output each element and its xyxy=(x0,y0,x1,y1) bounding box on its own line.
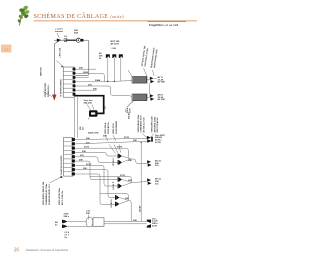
pointer below heater 2 xyxy=(128,101,134,107)
pointer lines to long wires xyxy=(105,135,116,141)
wire strip pin7 to hp2 plug b xyxy=(75,165,118,186)
svg-text:36: 36 xyxy=(14,248,20,254)
pointer to junction xyxy=(57,33,59,38)
connector pair 1 xyxy=(150,77,157,84)
curved pointer from heater 2 xyxy=(125,102,134,113)
bottom left side labels xyxy=(55,221,58,227)
svg-text:B. INTERCONNEX.: B. INTERCONNEX. xyxy=(61,78,63,96)
svg-text:208A: 208A xyxy=(95,79,101,82)
svg-text:27-28: 27-28 xyxy=(155,142,161,144)
wire feed horizontal xyxy=(54,39,70,41)
svg-text:FUSIBLES H.: FUSIBLES H. xyxy=(48,84,50,97)
wire fuse to pin row xyxy=(76,40,89,75)
svg-text:AR G 2178 27a: AR G 2178 27a xyxy=(61,190,64,205)
svg-text:AV 208: AV 208 xyxy=(158,98,166,101)
pin wire 3 xyxy=(76,77,89,79)
bottom wire top xyxy=(68,221,147,223)
left page tab xyxy=(1,45,12,53)
thick bus wire xyxy=(75,96,104,114)
svg-text:AV 2178: AV 2178 xyxy=(111,43,120,46)
svg-text:FEUX AR 2a: FEUX AR 2a xyxy=(107,122,110,134)
wire hp2 node feed xyxy=(90,177,131,183)
bottom right arrows xyxy=(147,220,151,228)
svg-text:2178: 2178 xyxy=(124,137,130,139)
svg-text:contact: contact xyxy=(55,30,63,33)
strip pins xyxy=(72,138,75,175)
svg-text:MAR 208: MAR 208 xyxy=(40,67,43,76)
bottom left plug 2 xyxy=(62,225,68,228)
long wire 2 to connector xyxy=(75,141,147,144)
ECU connector arrow pointer xyxy=(57,61,64,67)
fuse left label xyxy=(64,36,68,43)
svg-text:VERS 2178: VERS 2178 xyxy=(113,123,115,134)
top plug 2 xyxy=(112,54,116,81)
svg-text:VERS AMPLI RADIO 208: VERS AMPLI RADIO 208 xyxy=(42,181,45,205)
bottom right labels xyxy=(152,218,158,227)
svg-text:PLANCHE BORD 27-2: PLANCHE BORD 27-2 xyxy=(48,183,51,205)
vertical wires ECU to strip xyxy=(74,97,77,137)
junction dots xyxy=(107,81,115,83)
svg-text:208 a: 208 a xyxy=(127,107,129,113)
top connector left labels xyxy=(99,52,103,60)
svg-text:SCHÉMAS DE CÂBLAGE (suite): SCHÉMAS DE CÂBLAGE (suite) xyxy=(34,12,125,20)
long wire 1 to connector xyxy=(75,138,147,139)
wire strip pin5 to hp1 plug b xyxy=(75,157,118,163)
wire down to red arrow xyxy=(54,41,59,95)
pin wire 6 xyxy=(76,89,97,91)
svg-text:2208 2178: 2208 2178 xyxy=(88,133,99,135)
svg-text:HP AR G: HP AR G xyxy=(110,199,113,208)
main vertical wire right xyxy=(140,143,142,222)
relay K (black component) xyxy=(88,110,98,119)
svg-text:30A: 30A xyxy=(74,32,78,35)
svg-text:COMMANDE 2178: COMMANDE 2178 xyxy=(140,115,143,133)
wire strip pin9 to hp3 plug b xyxy=(75,174,115,204)
bottom left labels below xyxy=(65,232,70,239)
svg-text:COMMANDE AV 2178a: COMMANDE AV 2178a xyxy=(45,183,48,205)
svg-text:PLAFONNIER: PLAFONNIER xyxy=(115,120,118,134)
slanted label motor 1 xyxy=(142,45,150,76)
connector pair 2 xyxy=(150,94,154,101)
relay labels xyxy=(84,99,94,105)
heater resistor 2 (hatched) xyxy=(132,94,150,101)
svg-text:VERS AMPLI 208: VERS AMPLI 208 xyxy=(151,116,154,133)
svg-text:2178: 2178 xyxy=(84,147,90,149)
strip connector box xyxy=(64,138,74,177)
relay pointer lines xyxy=(87,105,94,110)
ECU rotated label xyxy=(61,78,63,96)
connector hp1 xyxy=(147,160,151,167)
wire hp3 node feed xyxy=(100,194,128,201)
svg-text:26: 26 xyxy=(4,47,9,52)
svg-text:VERS 208 A: VERS 208 A xyxy=(104,122,107,134)
svg-text:2208: 2208 xyxy=(83,72,89,74)
pin wire 4 to motor 1 xyxy=(76,80,132,82)
red arrowhead xyxy=(52,95,56,101)
pointer into heater 1 xyxy=(128,70,132,76)
strip connector pointer xyxy=(50,176,64,184)
svg-text:ANTENNE 2178a: ANTENNE 2178a xyxy=(153,116,156,133)
slanted labels above double connector xyxy=(137,114,147,137)
heater resistor 1 (hatched) xyxy=(132,77,150,84)
slanted label motor 2 xyxy=(150,47,159,76)
speaker plugs 3 xyxy=(115,195,119,206)
pin wire 2 xyxy=(76,73,105,81)
double connector mid-right xyxy=(147,136,153,143)
pin wire 5 xyxy=(76,86,132,97)
top plug 1 xyxy=(106,54,110,81)
svg-text:2178: 2178 xyxy=(120,175,126,177)
svg-text:AV 208 2a 27-28: AV 208 2a 27-28 xyxy=(142,117,145,133)
labels double connector xyxy=(155,135,165,144)
svg-text:2178: 2178 xyxy=(152,226,158,228)
speaker plugs 2 xyxy=(118,177,122,188)
svg-text:2178: 2178 xyxy=(86,164,92,166)
wire strip pin6 to hp2 plug a xyxy=(75,161,118,179)
header rule xyxy=(34,20,198,22)
antenna filter label xyxy=(86,210,91,220)
fuse F28 xyxy=(67,38,84,42)
speaker 2 output xyxy=(122,180,147,187)
svg-text:208 AV: 208 AV xyxy=(138,205,141,212)
label battery feed xyxy=(55,28,63,34)
speaker 1 output xyxy=(122,156,147,163)
svg-text:VERS BOITIER: VERS BOITIER xyxy=(45,82,47,97)
svg-text:Réalisation: Tommaso di Capodi: Réalisation: Tommaso di Capodistria xyxy=(26,248,69,252)
svg-text:Frég/Clim: µ4 µa 2a8: Frég/Clim: µ4 µa 2a8 xyxy=(149,23,178,27)
wire strip pin4 to hp1 plug a xyxy=(75,153,118,157)
pointer to red arrow xyxy=(43,92,52,97)
speaker 3 output xyxy=(119,198,131,222)
pin wire 1 xyxy=(76,68,96,70)
svg-text:+ APC 16A: + APC 16A xyxy=(58,47,61,58)
top plug 3 xyxy=(119,54,123,81)
ECU connector box xyxy=(63,67,74,97)
labels connector 2 xyxy=(158,93,166,101)
junction arrow xyxy=(57,39,62,42)
mid rotated labels over long wires xyxy=(104,120,118,134)
labels connector hp2 xyxy=(155,178,162,186)
hp pointer lines xyxy=(109,145,121,154)
bottom left plug labels top xyxy=(64,214,70,219)
svg-text:HP AV D: HP AV D xyxy=(112,181,115,189)
svg-text:VERS RADIO 208a: VERS RADIO 208a xyxy=(137,114,140,132)
wire strip pin8 to hp3 plug a xyxy=(75,170,115,198)
leaf logo xyxy=(17,5,30,26)
rotated label vers boitier xyxy=(45,82,50,97)
wire strip pin3 to hp1 node xyxy=(75,148,130,159)
labels below strip xyxy=(42,181,64,205)
labels connector hp1 xyxy=(155,159,162,167)
antenna filter component xyxy=(86,217,104,227)
svg-text:VERS HP AV 208a: VERS HP AV 208a xyxy=(58,187,61,205)
ECU pins xyxy=(73,68,76,96)
top connector labels xyxy=(111,41,121,50)
svg-text:208 a: 208 a xyxy=(64,216,70,218)
bottom left plug 1 xyxy=(62,220,68,223)
link line between connectors xyxy=(148,83,150,94)
labels connector 1 xyxy=(158,76,166,84)
svg-text:36A 208: 36A 208 xyxy=(84,102,93,105)
speaker plugs 1 xyxy=(118,154,122,165)
svg-text:208 27-28 AV 2a: 208 27-28 AV 2a xyxy=(156,117,159,133)
svg-text:PLANCHE DE BORD: PLANCHE DE BORD xyxy=(60,155,63,175)
bottom wire lower xyxy=(68,224,147,227)
svg-text:HP AV G: HP AV G xyxy=(112,158,115,166)
diagram title overline xyxy=(148,21,187,23)
connector hp2 xyxy=(147,178,151,185)
fuse labels xyxy=(74,30,79,35)
svg-text:AV 208: AV 208 xyxy=(158,81,166,84)
